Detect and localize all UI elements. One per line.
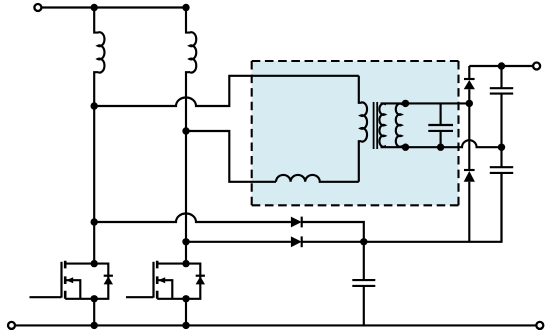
inductor L1	[94, 8, 104, 107]
wire bottom rail	[16, 324, 536, 326]
Q2 body lead	[157, 280, 172, 299]
node dot top rail / L1	[91, 4, 98, 11]
wire D2 to clamp node	[302, 241, 364, 243]
node dot Cp bottom	[437, 144, 444, 151]
node dot D3 / secondary top rail	[466, 100, 473, 107]
Q2 source dot	[182, 295, 189, 302]
Q1 gate lead	[30, 296, 62, 298]
resonant inductor Lr	[276, 175, 359, 182]
Q1 source dot	[91, 295, 98, 302]
Q2 body arrow	[158, 277, 165, 283]
node dot clamp	[360, 238, 367, 245]
wire L1 drain leg	[93, 106, 95, 264]
capacitor Cp leads	[440, 103, 442, 147]
capacitor Cp plates	[428, 125, 453, 131]
Q1 source lead	[65, 298, 94, 300]
wire secondary bottom rail (with hop over diode leg)	[381, 140, 502, 147]
Q2 body diode triangle	[196, 276, 205, 284]
clamp diode D2 (cathode bar)	[301, 236, 303, 247]
transformer secondary winding	[379, 103, 384, 147]
Q2 source lead	[157, 298, 186, 300]
transformer primary winding	[359, 76, 367, 182]
wire top rail	[42, 6, 186, 8]
clamp diode D1 (triangle)	[291, 217, 302, 228]
node dot secondary top	[402, 100, 409, 107]
Q1 drain lead	[65, 263, 94, 265]
Q1 channel bar segments	[64, 261, 67, 299]
clamp diode D1 (cathode bar)	[301, 217, 303, 228]
output capacitor C2 plates	[490, 167, 513, 173]
MOSFET Q2	[126, 260, 205, 303]
output capacitor C2 leads	[500, 147, 502, 242]
node dot mid output	[498, 144, 505, 151]
wire output top rail	[469, 65, 532, 67]
node dot L1 bottom	[91, 102, 98, 109]
wire drain1 to clamp diode D1 (with hop over L2 leg)	[94, 214, 291, 223]
node dot bottom rail Q2	[182, 322, 189, 329]
Q2 body diode cathode bar	[196, 275, 205, 277]
clamp capacitor C3 plates	[352, 280, 375, 286]
Q1 body diode triangle	[104, 276, 113, 284]
Q1 body arrow	[66, 277, 73, 283]
output capacitor C1 leads	[500, 66, 502, 147]
wire secondary top rail	[381, 102, 470, 104]
parallel inductor winding	[396, 103, 402, 147]
Q2 gate lead	[126, 296, 154, 298]
Q2 source to rail	[185, 299, 187, 326]
wire node A to transformer top (with hop over L2 leg)	[94, 76, 359, 106]
Q2 gate bar	[152, 262, 154, 298]
clamp capacitor C3 leads	[363, 242, 365, 326]
output terminal bottom-right	[536, 322, 543, 329]
node dot top rail / L2	[182, 4, 189, 11]
Q1 body diode cathode bar	[104, 275, 113, 277]
wire clamp node to output mid	[364, 173, 502, 242]
Q2 drain lead	[157, 263, 186, 265]
output capacitor C1 plates	[490, 88, 513, 93]
Q2 drain dot	[182, 260, 189, 267]
node dot drain2 branch	[182, 238, 189, 245]
diode D4 bottom (triangle)	[464, 171, 475, 182]
diode D3 top (triangle)	[464, 80, 475, 89]
node dot drain1 branch	[91, 218, 98, 225]
node dot output cap top	[498, 62, 505, 69]
clamp diode D2 (triangle)	[291, 236, 302, 247]
diode D4 bottom (cathode bar)	[464, 169, 475, 171]
Q1 body lead	[65, 280, 80, 299]
Q1 drain dot	[91, 260, 98, 267]
output terminal top-right	[533, 63, 540, 70]
transformer core	[374, 102, 378, 149]
inductor L2	[186, 8, 196, 132]
Q1 gate bar	[60, 262, 62, 298]
rectifier diode D3 branch wire	[468, 66, 470, 242]
node dot secondary bottom	[402, 144, 409, 151]
node dot bottom rail Q1	[91, 322, 98, 329]
input terminal top-left	[34, 4, 41, 11]
wire node B to resonant inductor	[186, 131, 276, 182]
MOSFET Q1	[30, 260, 114, 303]
Q2 body diode wire	[186, 264, 200, 299]
dashed resonant tank box	[252, 61, 459, 205]
Q2 channel bar segments	[156, 261, 159, 299]
node dot L2 line	[182, 127, 189, 134]
input terminal bottom-left	[8, 322, 15, 329]
diode D3 top (cathode bar)	[464, 78, 475, 80]
wire L2 drain leg	[185, 131, 187, 264]
Q1 source to rail	[93, 299, 95, 326]
wire D1 to clamp node	[302, 222, 364, 242]
wire drain2 to clamp diode D2	[186, 241, 291, 243]
Q1 body diode wire	[94, 264, 108, 299]
